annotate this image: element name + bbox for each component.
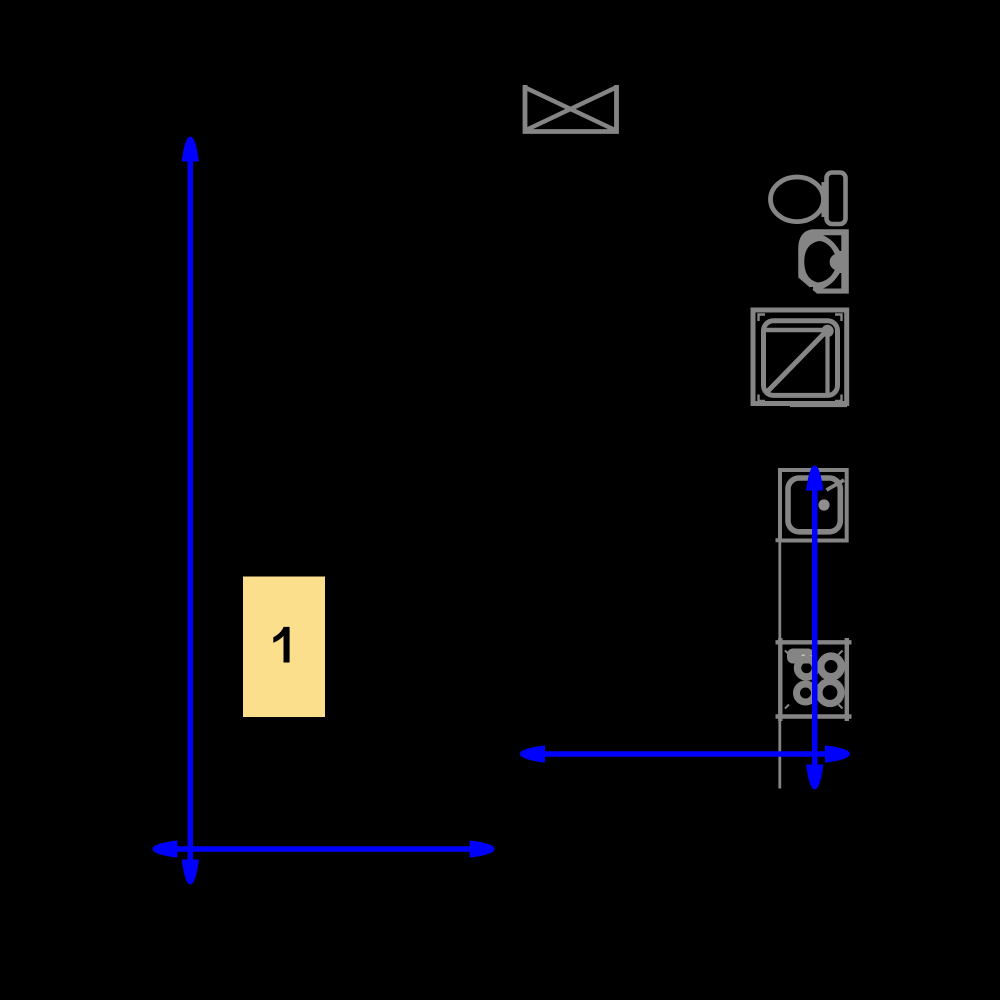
- window W1 (bowtie symbol): [524, 85, 617, 132]
- room 1 highlight: [243, 577, 325, 718]
- horizontal dimension line right: [520, 745, 850, 762]
- shower: [753, 310, 847, 407]
- kitchen sink: [776, 470, 847, 541]
- washbasin: [798, 229, 849, 293]
- vertical dimension line right: [806, 466, 823, 790]
- horizontal dimension line bottom: [152, 840, 494, 857]
- toilet: [771, 173, 846, 225]
- vertical dimension line left: [182, 137, 199, 885]
- stove: [776, 638, 852, 721]
- kitchen counter line: [778, 542, 781, 788]
